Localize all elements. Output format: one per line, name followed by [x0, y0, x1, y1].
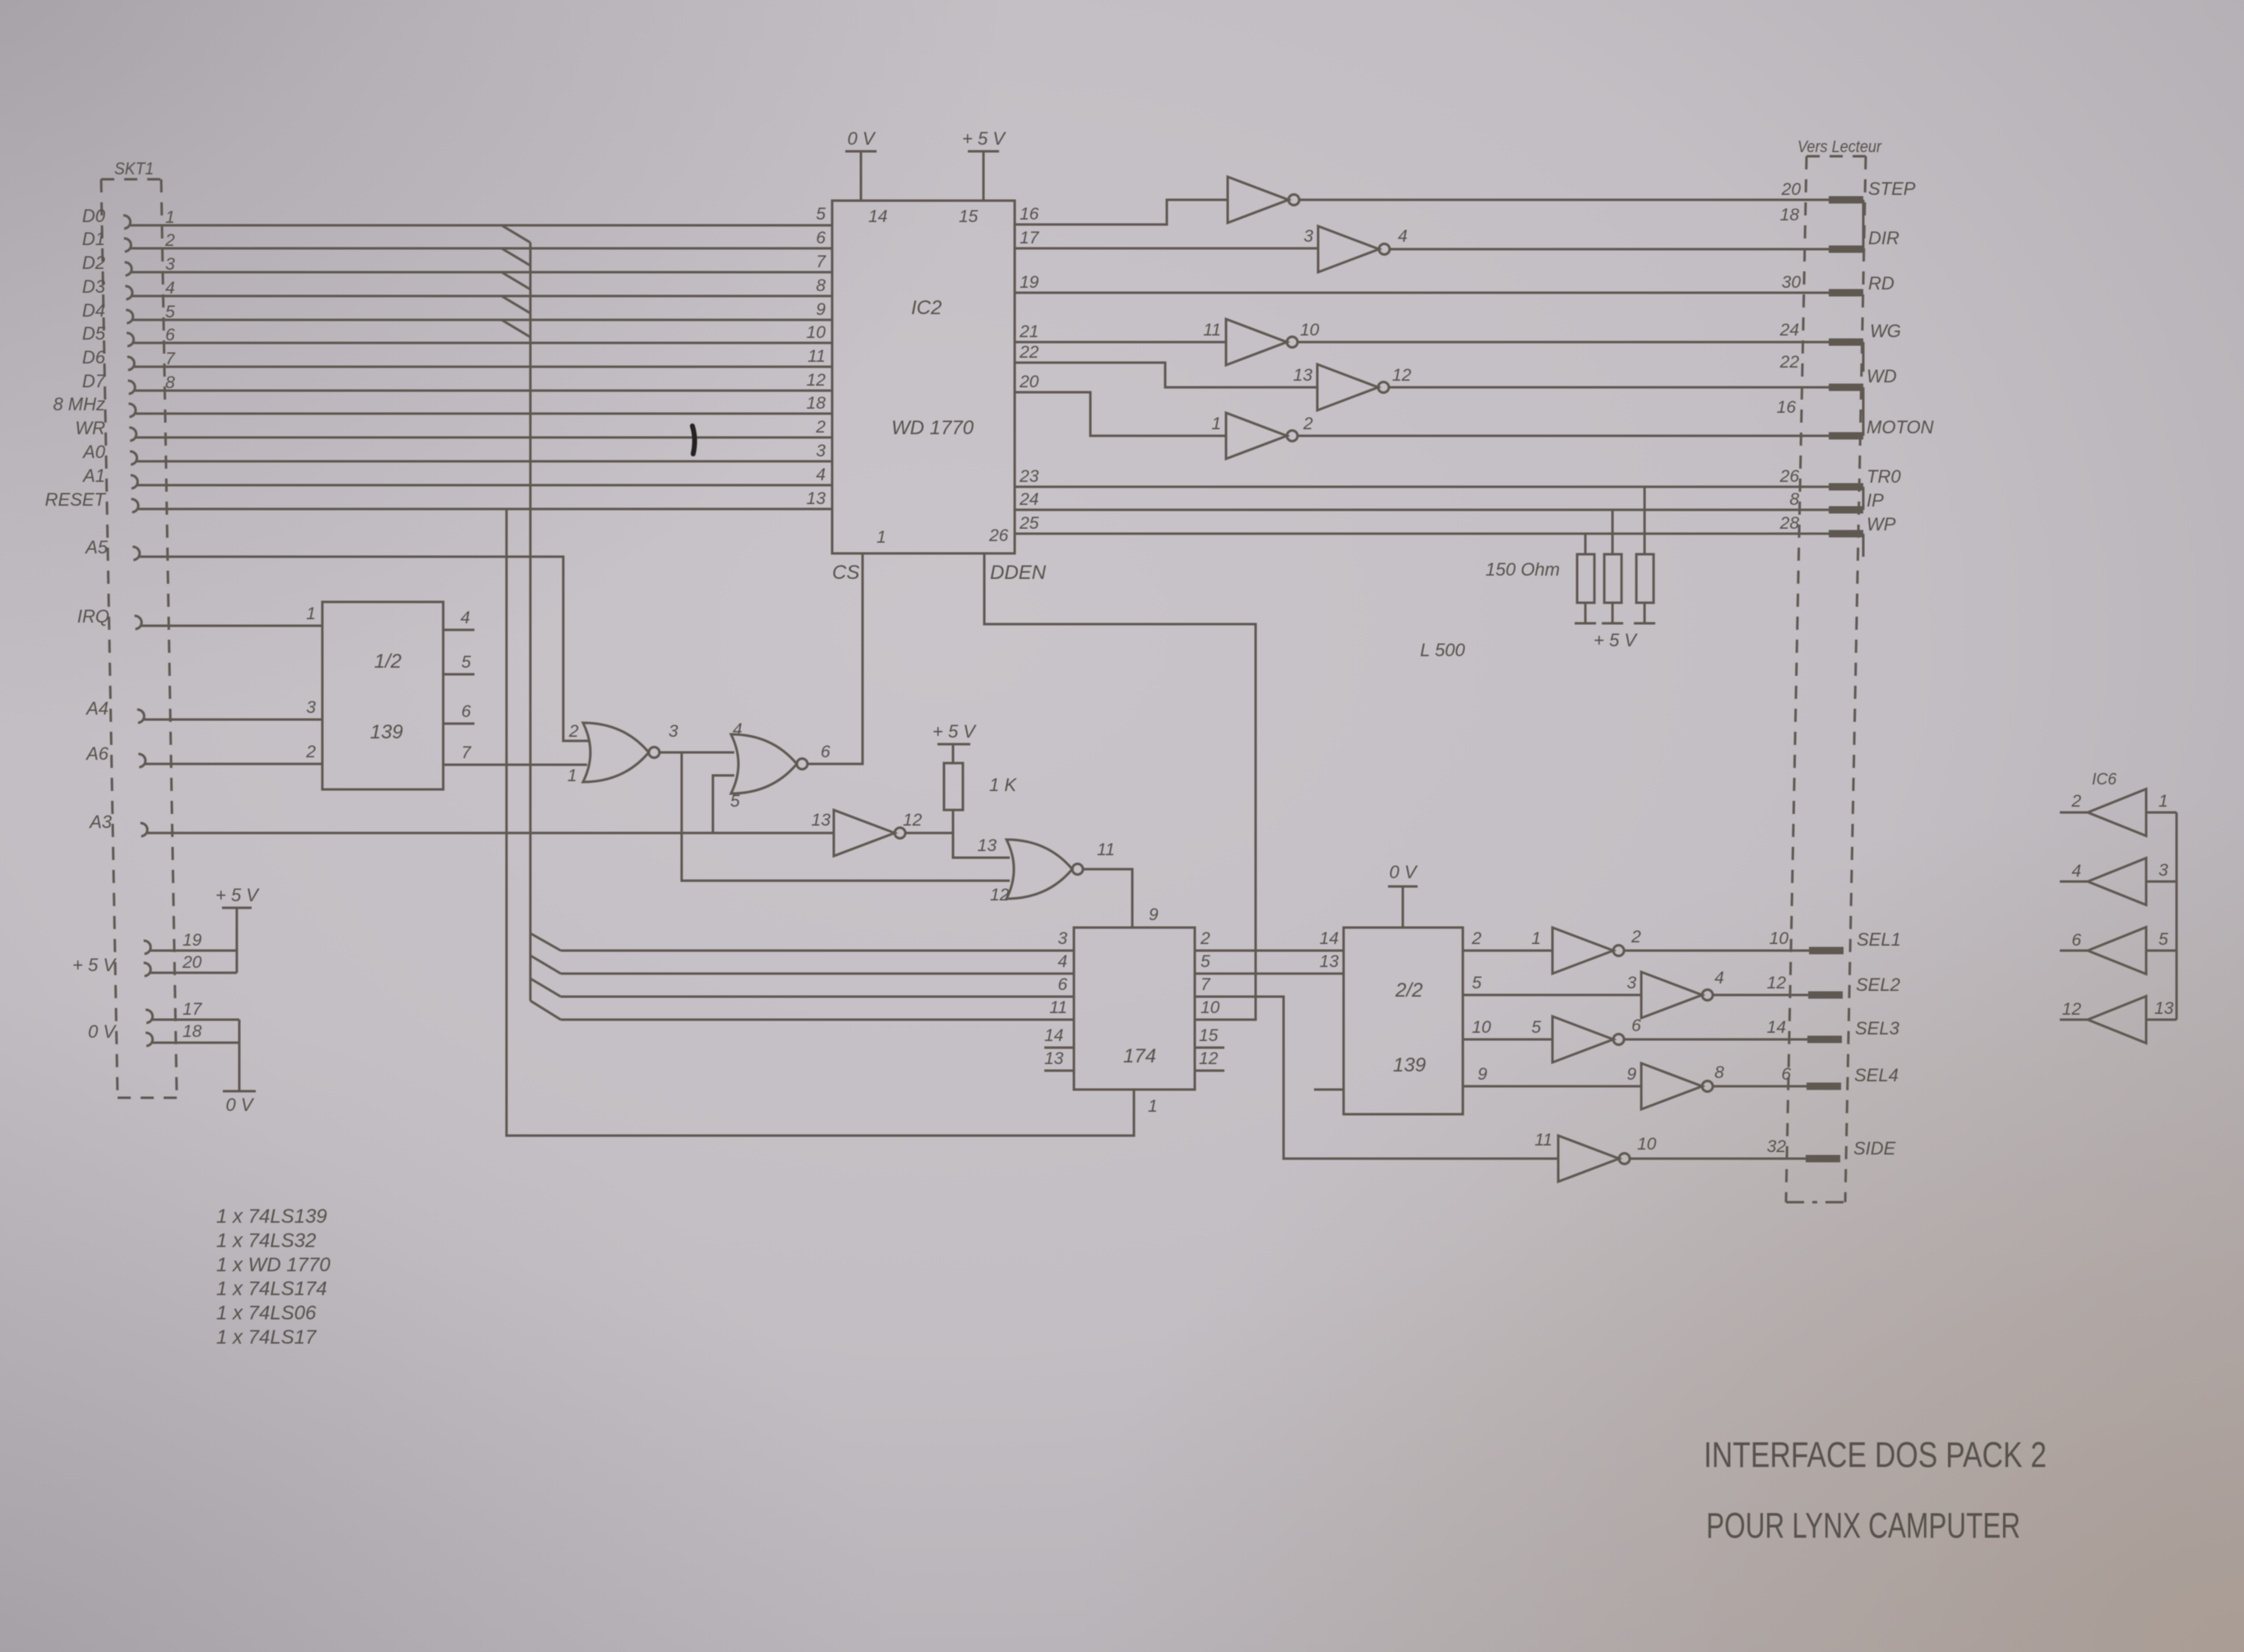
svg-text:SKT1: SKT1 — [114, 160, 154, 178]
wire A4 to 139 pin 3 — [85, 698, 322, 723]
svg-text:13: 13 — [1320, 952, 1339, 971]
svg-text:1: 1 — [306, 604, 316, 623]
svg-text:20: 20 — [1781, 180, 1802, 199]
svg-text:RD: RD — [1868, 273, 1895, 294]
svg-text:26: 26 — [1779, 467, 1800, 486]
inverter SEL1 (1-2) — [1531, 928, 1641, 974]
svg-text:15: 15 — [959, 207, 979, 226]
svg-text:0 V: 0 V — [88, 1021, 117, 1042]
wire WR (SKT1 pin - to IC2 pin 2) — [75, 418, 832, 441]
svg-text:SEL1: SEL1 — [1857, 929, 1901, 950]
wire IC2 pin 25 to WP — [1015, 514, 1896, 557]
svg-text:14: 14 — [1044, 1026, 1063, 1045]
svg-text:15: 15 — [1199, 1026, 1219, 1045]
svg-text:5: 5 — [730, 792, 740, 811]
svg-text:IC6: IC6 — [2092, 770, 2117, 789]
resistor 150 Ohm R1 (WP) — [1575, 534, 1596, 623]
wire SEL2 to connector — [1713, 974, 1900, 995]
bus wires to 174 pins 3/4/6/11 — [561, 929, 1074, 1020]
wire A5 to NOR1 input 2 — [84, 537, 589, 741]
svg-text:4: 4 — [816, 465, 826, 484]
svg-text:1 x 74LS17: 1 x 74LS17 — [216, 1326, 317, 1349]
svg-text:18: 18 — [807, 394, 826, 413]
svg-text:4: 4 — [460, 609, 470, 627]
svg-text:11: 11 — [1203, 321, 1221, 340]
svg-text:14: 14 — [868, 207, 887, 226]
IC2 top pin 15 +5V — [959, 128, 1006, 226]
label +5V under resistors — [1594, 630, 1638, 650]
svg-text:10: 10 — [1300, 321, 1320, 340]
svg-text:5: 5 — [1472, 974, 1482, 993]
svg-text:6: 6 — [1631, 1016, 1641, 1035]
svg-text:11: 11 — [1049, 998, 1067, 1017]
wire IC2 pin 17 to DIR inverter — [1015, 229, 1318, 248]
svg-text:6: 6 — [461, 702, 471, 721]
svg-text:MOTON: MOTON — [1867, 417, 1934, 437]
connector Vers Lecteur dashed outline — [1786, 156, 1866, 1202]
2/2 139 left pin labels — [0, 0, 1, 1]
svg-text:139: 139 — [370, 721, 403, 743]
svg-text:2: 2 — [305, 743, 316, 761]
svg-text:Vers Lecteur: Vers Lecteur — [1798, 138, 1882, 156]
svg-text:10: 10 — [1472, 1018, 1492, 1037]
svg-text:+ 5 V: + 5 V — [215, 885, 260, 905]
svg-text:+ 5 V: + 5 V — [72, 955, 117, 975]
svg-text:3: 3 — [669, 722, 678, 741]
label L 500 — [1420, 640, 1465, 660]
wire DIR to connector — [1390, 228, 1899, 249]
svg-text:8 MHz: 8 MHz — [53, 394, 105, 414]
svg-text:3: 3 — [816, 442, 826, 460]
svg-text:5: 5 — [461, 653, 471, 672]
svg-text:+ 5 V: + 5 V — [932, 721, 977, 742]
wire A3 riser to NOR-B input 5 — [713, 775, 740, 833]
NOR gate A (pins 1,2 out 3) — [568, 722, 678, 782]
svg-text:2: 2 — [2070, 792, 2081, 811]
svg-text:22: 22 — [1019, 343, 1039, 362]
svg-text:IP: IP — [1867, 490, 1884, 511]
svg-text:23: 23 — [1019, 467, 1039, 486]
inverter SEL2 (3-4) — [1626, 969, 1723, 1018]
svg-text:A1: A1 — [81, 465, 105, 486]
connector SKT1 dashed outline — [101, 179, 177, 1098]
svg-text:6: 6 — [1781, 1065, 1791, 1084]
svg-text:D0: D0 — [82, 206, 106, 226]
svg-text:3: 3 — [2158, 861, 2168, 880]
svg-text:12: 12 — [2062, 1000, 2082, 1019]
svg-text:SIDE: SIDE — [1853, 1138, 1896, 1159]
174 name label — [1123, 1045, 1156, 1067]
svg-text:1 x 74LS06: 1 x 74LS06 — [216, 1303, 317, 1325]
svg-text:7: 7 — [461, 743, 472, 762]
SKT1 0V pins 17/18 — [88, 1000, 256, 1115]
svg-text:12: 12 — [1392, 366, 1412, 385]
connector Vers Lecteur label — [1798, 138, 1882, 156]
svg-text:WD 1770: WD 1770 — [891, 417, 974, 439]
svg-text:3: 3 — [1303, 227, 1313, 246]
svg-text:RESET: RESET — [45, 489, 107, 510]
svg-text:139: 139 — [1393, 1054, 1426, 1076]
wire D5 (SKT1 pin 6 to IC2 pin 10) — [82, 323, 832, 346]
IC2 left pin numbers — [807, 205, 827, 508]
svg-text:D6: D6 — [82, 347, 106, 368]
wire IC2 pin 24 to IP — [1015, 490, 1884, 511]
inverter MOTON (1-2) — [1211, 413, 1313, 459]
inverter SIDE (11-10) — [1534, 1131, 1656, 1182]
svg-text:1 K: 1 K — [989, 775, 1017, 795]
inverter 74LS06 13-12 — [812, 810, 923, 856]
wire SEL3 to connector — [1624, 1018, 1900, 1039]
svg-text:16: 16 — [1020, 205, 1039, 224]
IC6 label — [2092, 770, 2117, 789]
svg-text:1: 1 — [1148, 1097, 1158, 1116]
174 NC stubs 14/13 — [1044, 1026, 1074, 1071]
bus fan-out diagonals to 174 — [530, 933, 561, 1020]
svg-text:32: 32 — [1767, 1137, 1787, 1156]
139 name labels — [370, 650, 403, 743]
title line 1 — [1704, 1435, 2047, 1475]
svg-text:0 V: 0 V — [225, 1094, 254, 1115]
svg-text:7: 7 — [816, 252, 826, 271]
wire 1K junction to NOR-C input 13 — [953, 833, 1010, 858]
wire D2 (SKT1 pin 3 to IC2 pin 7) — [82, 252, 832, 275]
wire 139 pin 2 to SEL1 inv — [1463, 929, 1552, 951]
svg-text:1/2: 1/2 — [374, 650, 401, 673]
wire WG to connector — [1298, 321, 1901, 372]
wire WD to connector — [1389, 366, 1897, 436]
inverter STEP — [1228, 177, 1299, 223]
svg-text:20: 20 — [182, 953, 202, 972]
wire IC2 pin 20 to MOTON inverter — [1015, 373, 1226, 436]
inverter DIR (3-4) — [1303, 226, 1407, 272]
svg-text:9: 9 — [1478, 1065, 1488, 1084]
svg-text:1: 1 — [2158, 792, 2168, 811]
wire D0 (SKT1 pin 1 to IC2 pin 5) — [82, 206, 832, 229]
svg-text:10: 10 — [807, 323, 826, 342]
svg-text:13: 13 — [978, 836, 997, 855]
svg-text:WR: WR — [75, 418, 105, 438]
IC2 name labels — [891, 297, 974, 439]
svg-text:1: 1 — [877, 528, 886, 547]
svg-text:3: 3 — [1057, 929, 1067, 948]
svg-text:8: 8 — [816, 276, 826, 295]
svg-text:D2: D2 — [82, 252, 105, 273]
svg-text:11: 11 — [1534, 1131, 1552, 1150]
svg-text:5: 5 — [1201, 952, 1210, 971]
wire 174 pin 5 to 139 pin 13 — [1195, 952, 1343, 974]
svg-text:1: 1 — [567, 766, 577, 785]
wire NOR-A out to NOR-B input 4 — [659, 720, 743, 752]
svg-text:L 500: L 500 — [1420, 640, 1465, 660]
svg-text:12: 12 — [807, 371, 826, 390]
svg-text:5: 5 — [816, 205, 826, 224]
svg-text:6: 6 — [816, 229, 826, 248]
svg-text:2: 2 — [1471, 929, 1482, 948]
svg-text:SEL3: SEL3 — [1855, 1018, 1900, 1039]
IC6 output bus vertical — [2176, 812, 2178, 1020]
svg-text:A0: A0 — [81, 442, 106, 462]
wire D7 (SKT1 pin 8 to IC2 pin 12) — [82, 371, 832, 394]
svg-text:16: 16 — [1777, 398, 1797, 417]
svg-text:6: 6 — [1057, 975, 1067, 994]
wire RESET to 174 pin 1 — [507, 509, 1158, 1136]
svg-text:12: 12 — [1199, 1049, 1219, 1068]
svg-text:4: 4 — [1714, 969, 1724, 988]
svg-text:3: 3 — [306, 698, 316, 717]
wire IC2 pin 22 to WD inverter — [1015, 343, 1317, 387]
svg-text:INTERFACE DOS PACK 2: INTERFACE DOS PACK 2 — [1704, 1435, 2047, 1475]
svg-text:4: 4 — [1398, 227, 1408, 246]
IC 74LS174 body — [1074, 928, 1195, 1090]
ink mark — [692, 426, 695, 454]
svg-text:STEP: STEP — [1868, 178, 1916, 199]
wire RESET (SKT1 pin - to IC2 pin 13) — [45, 489, 832, 512]
svg-text:8: 8 — [1789, 490, 1799, 509]
svg-text:D5: D5 — [82, 323, 106, 344]
svg-text:22: 22 — [1779, 353, 1800, 372]
wire inverter 12 to 1K junction — [905, 832, 953, 835]
buffer IC6 4-3 — [2060, 858, 2177, 905]
title line 2 — [1706, 1506, 2020, 1546]
svg-text:2: 2 — [1631, 928, 1641, 946]
svg-text:17: 17 — [183, 1000, 203, 1019]
buffer IC6 6-5 — [2060, 928, 2177, 974]
svg-text:2/2: 2/2 — [1395, 979, 1423, 1002]
svg-text:9: 9 — [1626, 1065, 1636, 1084]
svg-text:2: 2 — [1302, 414, 1313, 433]
wire 174 pin 10 to IC2 DDEN — [984, 553, 1256, 1020]
svg-text:SEL4: SEL4 — [1854, 1065, 1899, 1085]
svg-text:4: 4 — [2071, 862, 2081, 881]
svg-text:DDEN: DDEN — [990, 562, 1047, 584]
IC 74LS139 half 2 body — [1344, 928, 1463, 1114]
174 right NC stubs 15/12 — [1195, 1026, 1224, 1071]
data bus vertical — [530, 243, 532, 1001]
wire SEL1 to connector — [1624, 929, 1901, 951]
SKT1 +5V pins 19/20 — [72, 885, 260, 976]
2/2 139 0V pin — [1388, 862, 1418, 928]
svg-text:A6: A6 — [85, 743, 109, 764]
svg-text:0 V: 0 V — [1389, 862, 1418, 882]
svg-text:9: 9 — [1149, 905, 1159, 924]
svg-text:1 x WD 1770: 1 x WD 1770 — [216, 1254, 331, 1276]
svg-text:0 V: 0 V — [847, 128, 876, 149]
svg-text:IC2: IC2 — [911, 297, 942, 319]
inverter WD (13-12) — [1293, 364, 1412, 410]
wire A0 (SKT1 pin - to IC2 pin 3) — [81, 442, 832, 465]
wire IC2 pin 19 to RD — [1015, 273, 1895, 294]
svg-text:POUR LYNX CAMPUTER: POUR LYNX CAMPUTER — [1706, 1506, 2020, 1546]
svg-text:SEL2: SEL2 — [1856, 974, 1900, 995]
svg-text:DIR: DIR — [1868, 228, 1899, 248]
IC 74LS139 half 1 body — [322, 602, 443, 789]
svg-text:18: 18 — [1780, 206, 1800, 224]
wire 174 pin 2 to 139 pin 14 — [1195, 929, 1343, 951]
svg-text:19: 19 — [183, 931, 202, 950]
svg-text:150 Ohm: 150 Ohm — [1486, 559, 1561, 580]
IC WD1770 (IC2) body — [832, 201, 1015, 553]
svg-text:24: 24 — [1779, 321, 1799, 340]
wire A3 to inverter pin 13 — [88, 812, 834, 836]
svg-text:D4: D4 — [82, 300, 105, 321]
svg-text:1 x 74LS139: 1 x 74LS139 — [216, 1205, 327, 1228]
svg-text:25: 25 — [1019, 514, 1039, 533]
svg-text:1: 1 — [1531, 929, 1541, 948]
wire 139 pin 7 to NOR1 input 1 — [443, 743, 587, 785]
label 150 Ohm — [1486, 559, 1561, 580]
svg-text:TR0: TR0 — [1867, 466, 1901, 487]
wire MOTON to connector — [1298, 417, 1934, 437]
svg-text:21: 21 — [1019, 322, 1039, 341]
bus jog diagonals D0-D4 — [502, 225, 530, 337]
svg-text:13: 13 — [1044, 1049, 1064, 1068]
svg-text:14: 14 — [1320, 929, 1339, 948]
svg-text:10: 10 — [1637, 1135, 1657, 1154]
wire 174 pin 7 to SIDE inverter — [1195, 975, 1558, 1159]
svg-text:1 x 74LS32: 1 x 74LS32 — [216, 1229, 316, 1252]
svg-text:10: 10 — [1201, 998, 1220, 1017]
resistor 1K with +5V — [932, 721, 1017, 833]
wire 139 pin 10 to SEL3 inv — [1463, 1018, 1552, 1039]
svg-text:3: 3 — [1626, 974, 1636, 993]
wire A1 (SKT1 pin - to IC2 pin 4) — [81, 465, 832, 488]
svg-text:D1: D1 — [82, 229, 105, 249]
buffer IC6 12-13 — [2060, 997, 2177, 1043]
svg-text:30: 30 — [1782, 273, 1802, 292]
buffer IC6 2-1 — [2060, 789, 2177, 836]
svg-text:18: 18 — [183, 1022, 202, 1041]
svg-text:14: 14 — [1767, 1018, 1786, 1037]
2/2 139 enable stub — [1314, 1089, 1344, 1091]
svg-text:10: 10 — [1770, 929, 1789, 948]
wire NOR-B out to IC2 CS — [807, 553, 863, 764]
NOR gate B (pins 4,5 out 6) — [731, 734, 831, 794]
svg-text:28: 28 — [1779, 514, 1800, 533]
svg-text:174: 174 — [1123, 1045, 1156, 1067]
wire 139 pin 5 to SEL2 inv — [1463, 974, 1641, 995]
wire 139 pin 9 to SEL4 inv — [1463, 1065, 1641, 1086]
inverter WG (11-10) — [1203, 319, 1319, 365]
wire IC2 pin 21 to WG inverter — [1015, 322, 1226, 342]
svg-text:IRQ: IRQ — [77, 606, 109, 627]
svg-text:13: 13 — [2154, 999, 2174, 1018]
svg-text:2: 2 — [815, 418, 826, 437]
wire NOR-A out to NOR-C input 12 — [682, 752, 1010, 881]
svg-text:12: 12 — [1767, 974, 1787, 993]
svg-text:17: 17 — [1020, 229, 1040, 248]
wire NOR-C out to 174 pin 9 — [1083, 869, 1159, 928]
svg-text:12: 12 — [903, 811, 923, 830]
svg-text:4: 4 — [1057, 952, 1067, 971]
svg-text:+ 5 V: + 5 V — [962, 128, 1006, 149]
svg-text:5: 5 — [2158, 930, 2168, 949]
svg-text:CS: CS — [832, 562, 859, 584]
wire SEL4 to connector — [1713, 1065, 1899, 1086]
wire D3 (SKT1 pin 4 to IC2 pin 8) — [82, 276, 832, 299]
connector SKT1 label — [114, 160, 154, 178]
IC2 top pin 14 0V — [845, 128, 887, 226]
NOR gate C (pins 13,12 out 11) — [990, 840, 1115, 905]
svg-text:2: 2 — [568, 722, 579, 741]
svg-text:13: 13 — [812, 811, 831, 830]
svg-text:1: 1 — [1211, 414, 1221, 433]
svg-text:7: 7 — [1201, 975, 1211, 994]
svg-text:WD: WD — [1867, 366, 1897, 386]
svg-text:D3: D3 — [82, 276, 106, 297]
svg-text:4: 4 — [733, 720, 743, 739]
svg-text:2: 2 — [1200, 929, 1210, 948]
svg-text:WP: WP — [1867, 514, 1896, 534]
wire 8 MHz (SKT1 pin - to IC2 pin 18) — [53, 394, 832, 417]
parts list — [216, 1205, 331, 1349]
wire D6 (SKT1 pin 7 to IC2 pin 11) — [82, 347, 832, 370]
wire STEP to connector — [1299, 178, 1916, 249]
2/2 139 name labels — [1393, 979, 1426, 1076]
wire IRQ to 139 pin 1 — [77, 604, 322, 629]
svg-text:8: 8 — [1714, 1063, 1724, 1082]
svg-text:24: 24 — [1019, 490, 1039, 509]
inverter SEL3 (5-6) — [1531, 1016, 1641, 1062]
wire D4 (SKT1 pin 5 to IC2 pin 9) — [82, 300, 832, 323]
wire IC2 pin 23 to TR0 — [1015, 466, 1901, 510]
resistor 150 Ohm R2 (IP) — [1602, 510, 1623, 623]
svg-text:6: 6 — [821, 743, 831, 761]
svg-text:26: 26 — [988, 526, 1009, 545]
svg-text:20: 20 — [1019, 373, 1039, 391]
svg-text:A5: A5 — [84, 537, 109, 558]
svg-text:A4: A4 — [85, 698, 109, 719]
139 NC stubs 4/5/6 — [443, 609, 474, 724]
wire IC2 pin 16 to STEP inverter — [1015, 200, 1228, 224]
svg-text:+ 5 V: + 5 V — [1594, 630, 1638, 650]
svg-text:5: 5 — [1531, 1018, 1541, 1037]
svg-text:6: 6 — [2071, 931, 2081, 950]
svg-text:19: 19 — [1020, 273, 1039, 292]
inverter SEL4 (9-8) — [1626, 1063, 1724, 1109]
svg-text:D7: D7 — [82, 371, 106, 391]
IC2 bottom pin labels — [832, 526, 1047, 584]
svg-text:WG: WG — [1870, 321, 1901, 341]
svg-text:11: 11 — [807, 347, 826, 366]
svg-text:9: 9 — [816, 300, 826, 319]
wire D1 (SKT1 pin 2 to IC2 pin 6) — [82, 229, 832, 252]
svg-text:A3: A3 — [88, 812, 113, 832]
svg-text:13: 13 — [1293, 366, 1313, 385]
svg-text:1 x 74LS174: 1 x 74LS174 — [216, 1278, 327, 1300]
svg-text:13: 13 — [807, 489, 826, 508]
wire SIDE to connector — [1630, 1137, 1896, 1159]
svg-text:11: 11 — [1097, 840, 1115, 859]
wire A6 to 139 pin 2 — [85, 743, 322, 767]
resistor 150 Ohm R3 (TR0) — [1634, 487, 1655, 623]
svg-text:12: 12 — [990, 886, 1010, 905]
